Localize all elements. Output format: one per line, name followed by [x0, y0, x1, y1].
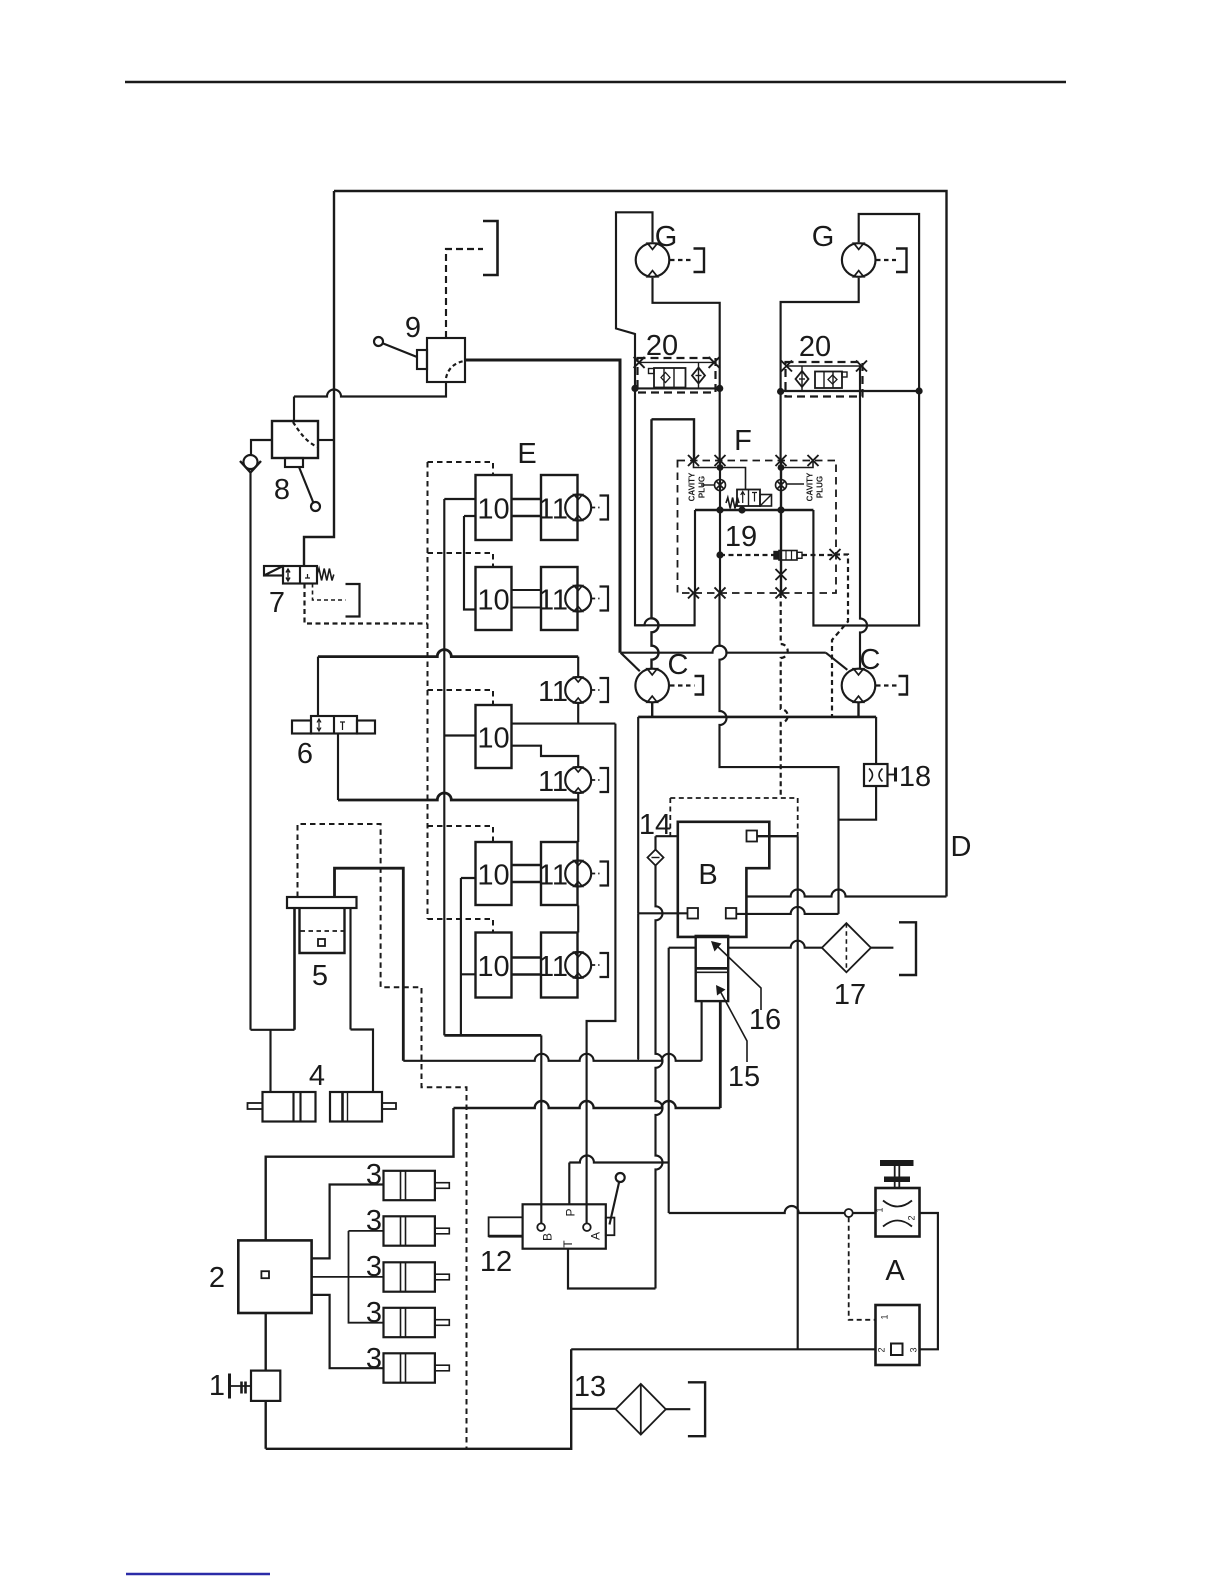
svg-text:20: 20	[799, 331, 831, 363]
svg-text:16: 16	[749, 1004, 781, 1036]
svg-text:2: 2	[907, 1215, 917, 1220]
svg-text:6: 6	[297, 738, 313, 770]
svg-text:PLUG: PLUG	[816, 476, 825, 498]
svg-text:11: 11	[538, 860, 568, 892]
svg-text:3: 3	[366, 1205, 382, 1237]
svg-text:CAVITY: CAVITY	[806, 472, 815, 501]
svg-text:2: 2	[877, 1347, 887, 1352]
svg-text:1: 1	[209, 1370, 225, 1402]
svg-text:11: 11	[538, 494, 568, 526]
svg-text:7: 7	[269, 587, 285, 619]
svg-text:13: 13	[574, 1371, 606, 1403]
svg-text:9: 9	[405, 312, 421, 344]
svg-text:11: 11	[538, 766, 568, 798]
svg-text:A: A	[589, 1232, 603, 1240]
svg-text:15: 15	[728, 1061, 760, 1093]
svg-text:20: 20	[646, 330, 678, 362]
svg-text:E: E	[517, 438, 536, 470]
svg-text:12: 12	[480, 1246, 512, 1278]
svg-text:8: 8	[274, 474, 290, 506]
svg-text:3: 3	[366, 1159, 382, 1191]
svg-text:B: B	[541, 1233, 555, 1241]
svg-text:18: 18	[899, 761, 931, 793]
svg-text:D: D	[951, 831, 972, 863]
svg-text:3: 3	[909, 1347, 919, 1352]
svg-text:4: 4	[309, 1060, 325, 1092]
svg-text:10: 10	[477, 860, 509, 892]
svg-text:3: 3	[366, 1297, 382, 1329]
svg-text:10: 10	[477, 585, 509, 617]
svg-text:F: F	[734, 425, 752, 457]
svg-text:A: A	[885, 1255, 905, 1287]
svg-text:C: C	[668, 649, 689, 681]
svg-text:11: 11	[538, 676, 568, 708]
svg-text:19: 19	[725, 521, 757, 553]
svg-text:3: 3	[366, 1343, 382, 1375]
svg-text:B: B	[698, 859, 717, 891]
svg-text:2: 2	[209, 1262, 225, 1294]
svg-text:10: 10	[477, 723, 509, 755]
svg-text:3: 3	[366, 1251, 382, 1283]
svg-text:PLUG: PLUG	[698, 476, 707, 498]
svg-text:10: 10	[477, 494, 509, 526]
svg-text:CAVITY: CAVITY	[688, 472, 697, 501]
svg-text:10: 10	[477, 951, 509, 983]
svg-text:P: P	[564, 1208, 578, 1216]
svg-text:1: 1	[875, 1207, 885, 1212]
svg-text:G: G	[812, 221, 835, 253]
svg-text:11: 11	[538, 951, 568, 983]
svg-text:5: 5	[312, 960, 328, 992]
svg-text:11: 11	[538, 585, 568, 617]
svg-text:C: C	[860, 644, 881, 676]
svg-text:1: 1	[880, 1314, 890, 1319]
svg-text:G: G	[655, 221, 678, 253]
svg-text:T: T	[561, 1240, 575, 1248]
svg-text:17: 17	[834, 979, 866, 1011]
svg-text:14: 14	[639, 809, 671, 841]
